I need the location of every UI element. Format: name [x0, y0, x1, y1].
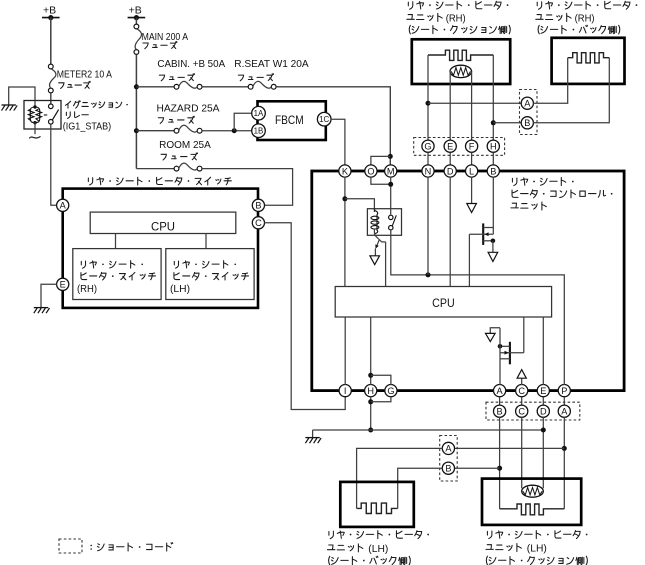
fuse ROOM 25A	[136, 163, 202, 171]
ground (control unit)	[305, 430, 321, 443]
wire FBCM 1C to terminal K	[331, 119, 345, 165]
wire H-G bracket (outside)	[368, 396, 391, 432]
wire fuse to ignition relay	[50, 93, 52, 104]
ground arrow (Q1 source)	[488, 252, 498, 261]
unit box RH seat-cushion heater	[412, 39, 510, 84]
terminal C (lower connector)	[516, 405, 528, 417]
svg-text:F: F	[469, 142, 475, 152]
svg-text:(RH): (RH)	[77, 284, 97, 295]
svg-text:B: B	[497, 407, 503, 417]
terminal I (control unit bottom)	[339, 385, 351, 397]
svg-text:E: E	[60, 280, 66, 290]
terminal C (switch)	[252, 217, 264, 229]
wire heater-left to connector A	[428, 102, 522, 104]
control unit box リヤ・シート・ヒータ・コントロール・ユニット	[312, 171, 624, 391]
svg-text:H: H	[367, 386, 374, 396]
svg-text:M: M	[387, 166, 395, 176]
svg-text:G: G	[387, 386, 394, 396]
svg-text:CABIN. +B 50A: CABIN. +B 50A	[157, 59, 225, 70]
wire relay to switch terminal A	[51, 124, 57, 205]
ground arrow (relay coil)	[370, 256, 380, 265]
relay box U-IGN イグニッション・リレー	[24, 101, 61, 130]
node +B (battery feed, left)	[42, 5, 60, 65]
pin 1C	[317, 112, 331, 126]
wire D to CPU	[449, 177, 451, 287]
svg-text:K: K	[342, 166, 349, 176]
svg-text:(LH): (LH)	[527, 544, 547, 555]
svg-text:ROOM 25A: ROOM 25A	[159, 140, 211, 151]
terminal L (control unit top)	[466, 165, 478, 177]
svg-text:(RH): (RH)	[446, 13, 466, 24]
label CABIN. +B 50A フューズ	[157, 59, 225, 81]
wire heater-right to connector B	[493, 122, 521, 124]
svg-text:A: A	[497, 386, 504, 396]
wire relay contact to P (via N junction)	[391, 230, 565, 385]
wire M to relay contact	[388, 177, 393, 216]
svg-text:A: A	[524, 99, 531, 109]
label リヤ・シート・ヒータ・ユニット (LH) (シート・クッション側)	[486, 531, 588, 565]
terminal B (RH back)	[521, 117, 533, 129]
label リヤ・シート・ヒータ・ユニット (RH) (シート・クッション側)	[407, 1, 510, 34]
wire lead E (thermostat left)	[449, 71, 451, 140]
wire switch C to control unit I	[264, 223, 345, 410]
ground wire (H)	[313, 429, 544, 431]
connector B C D A (short code)	[486, 402, 580, 420]
terminal B (switch)	[252, 199, 264, 211]
wire connector B row (LH)	[454, 467, 499, 469]
wire connector A row (LH)	[454, 447, 564, 449]
svg-text:E: E	[447, 142, 453, 152]
svg-text:G: G	[424, 142, 431, 152]
terminal E (switch)	[57, 278, 69, 290]
terminal A (LH back)	[442, 442, 454, 454]
svg-text:C: C	[255, 218, 262, 228]
terminal K (control unit top)	[339, 165, 351, 177]
label リヤ・シート・ヒータ・コントロール・ユニット	[511, 178, 613, 210]
connector G E F H (short code)	[414, 138, 505, 156]
label リヤ・シート・ヒータ・スイッチ	[88, 177, 231, 185]
wire stub C	[521, 397, 523, 406]
wire connector A to RH back heater	[533, 58, 568, 103]
unit box RH seat-back heater	[552, 38, 625, 84]
fuse METER2 10 A	[48, 64, 56, 93]
terminal N (control unit top)	[422, 165, 434, 177]
connector A B (LH back, short code)	[440, 436, 458, 482]
wire connector B to RH back heater	[533, 58, 609, 123]
svg-text:B: B	[255, 201, 261, 211]
wire feed row to CABIN fuse	[136, 86, 174, 88]
heater element (RH cushion)	[428, 50, 493, 60]
wire between fuses	[202, 86, 248, 88]
terminal A (RH back)	[521, 97, 533, 109]
wire B to LH cushion heater	[497, 417, 502, 509]
svg-text:(LH): (LH)	[170, 284, 190, 295]
svg-text:C: C	[518, 407, 525, 417]
pin 1B	[252, 124, 266, 138]
arrow (C output, upward)	[517, 370, 526, 385]
svg-text:D: D	[540, 407, 547, 417]
wire L to arrow	[471, 177, 473, 204]
svg-text:E: E	[540, 386, 546, 396]
arrow (L output)	[467, 204, 477, 213]
relay coil (control unit)	[371, 209, 379, 236]
svg-text:+B: +B	[129, 5, 142, 17]
wire N down to junction	[427, 177, 429, 275]
terminal B (LH back)	[442, 462, 454, 474]
relay coil (ignition relay)	[28, 101, 47, 125]
svg-text:METER2 10 A: METER2 10 A	[57, 70, 112, 81]
terminal M (control unit top)	[385, 165, 397, 177]
fuse R.SEAT W1 20A	[248, 81, 276, 89]
label リヤ・シート・ヒータ・ユニット (LH) (シート・バック側)	[327, 531, 429, 565]
label METER2 10 A フューズ	[57, 70, 112, 89]
svg-text:(RH): (RH)	[575, 13, 595, 24]
legend short code ショート・コード	[59, 539, 173, 553]
terminal O (control unit top)	[365, 165, 377, 177]
svg-text:+B: +B	[43, 5, 56, 17]
wire main feed vertical	[134, 55, 139, 169]
fuse MAIN 200 A	[134, 24, 142, 54]
wire Q1 gate to CPU	[468, 234, 470, 286]
terminal D (control unit top)	[444, 165, 456, 177]
label イグニッション・リレー (IG1_STAB)	[63, 101, 128, 133]
terminal G (control unit bottom)	[385, 385, 397, 397]
wire lead H (heater right)	[491, 55, 496, 140]
node +B (battery feed, right)	[128, 5, 146, 25]
svg-text:P: P	[561, 386, 567, 396]
label リヤ・シート・ヒータ・ユニット (RH) (シート・バック側)	[536, 1, 638, 34]
pin 1A	[252, 106, 266, 120]
label ROOM 25A フューズ	[159, 140, 211, 160]
wire B to MOSFET drain	[492, 177, 494, 235]
svg-text:A: A	[561, 407, 568, 417]
wire stub D	[542, 397, 544, 406]
svg-text:MAIN 200 A: MAIN 200 A	[142, 32, 189, 43]
unit box LH seat-cushion heater	[482, 479, 581, 525]
relay box (control unit)	[367, 209, 401, 236]
wire hazard fuse to FBCM 1B	[202, 128, 252, 133]
wire CPU to RH switch block	[115, 234, 117, 249]
svg-text:I: I	[344, 386, 347, 396]
wire D to LH thermostat with ground tap	[541, 417, 546, 489]
svg-text:L: L	[469, 166, 474, 176]
coil return hook	[29, 123, 40, 139]
wire branch to FBCM 1A	[234, 113, 252, 131]
wire CPU to I	[344, 317, 346, 385]
wire Q2 gate to CPU	[523, 317, 525, 353]
wire A to LH cushion heater	[562, 417, 567, 509]
svg-text:1B: 1B	[254, 127, 264, 136]
transistor Q1 (B output FET)	[469, 223, 495, 252]
wire B to LH back heater	[398, 468, 443, 508]
svg-text:D: D	[447, 166, 454, 176]
arrow (Q2 drain)	[486, 333, 496, 341]
block リヤ・シート・ヒータ・スイッチ (LH)	[166, 249, 254, 300]
wire A to LH back heater	[357, 448, 443, 508]
svg-text:(IG1_STAB): (IG1_STAB)	[63, 121, 111, 132]
wire relay coil to ground arrow and CPU	[374, 229, 385, 287]
svg-text:O: O	[367, 166, 374, 176]
svg-text:CPU: CPU	[432, 296, 455, 310]
svg-text:(LH): (LH)	[368, 544, 388, 555]
terminal E (control unit bottom)	[537, 385, 549, 397]
switch unit box	[63, 189, 258, 308]
svg-text:FBCM: FBCM	[275, 113, 304, 127]
wire R.SEAT fuse to terminal M	[276, 87, 393, 166]
wire C to LH thermostat	[521, 417, 523, 489]
svg-text:HAZARD 25A: HAZARD 25A	[157, 104, 220, 115]
svg-text:B: B	[524, 118, 530, 128]
transistor Q2 (C output FET)	[490, 328, 524, 385]
terminal A (lower connector)	[558, 405, 570, 417]
connector A B (RH back, short code)	[520, 90, 538, 135]
terminal P (control unit bottom)	[558, 385, 570, 397]
svg-text:R.SEAT W1 20A: R.SEAT W1 20A	[234, 59, 309, 70]
svg-text:H: H	[490, 142, 497, 152]
unit box LH seat-back heater	[340, 482, 414, 527]
svg-text:B: B	[445, 464, 451, 474]
terminal C (control unit bottom)	[516, 385, 528, 397]
svg-text:CPU: CPU	[151, 219, 175, 233]
terminal B (control unit top)	[487, 165, 499, 177]
CPU (switch unit)	[90, 212, 236, 233]
wire CPU to H with G bracket	[368, 317, 373, 385]
terminal H (control unit bottom)	[365, 385, 377, 397]
svg-text:1C: 1C	[319, 115, 329, 124]
wire K to CPU with branch to relay coil	[342, 177, 347, 287]
ground (switch E)	[34, 284, 57, 313]
heater element (RH back)	[568, 53, 610, 63]
relay contact (control unit)	[389, 215, 397, 230]
fuse CABIN. +B 50A	[174, 81, 202, 89]
svg-text:B: B	[490, 166, 496, 176]
svg-text:A: A	[60, 201, 67, 211]
thermostat (RH cushion)	[450, 65, 472, 77]
wire room fuse to switch terminal B	[202, 169, 293, 206]
block リヤ・シート・ヒータ・スイッチ (RH)	[73, 249, 161, 300]
wire feed row to HAZARD fuse	[136, 130, 174, 132]
wire lead F (thermostat right)	[471, 71, 473, 140]
svg-text:1A: 1A	[254, 109, 264, 118]
thermostat (LH cushion)	[522, 485, 544, 497]
wire bracket to G (inside)	[371, 375, 391, 385]
module FBCM	[258, 101, 326, 140]
CPU (control unit)	[335, 287, 551, 318]
wire stub B	[499, 397, 501, 406]
terminal G	[422, 140, 434, 152]
terminal E	[444, 140, 456, 152]
wire G to N	[427, 152, 429, 165]
wire E to D	[449, 152, 451, 165]
wire branch to relay coil	[345, 199, 375, 212]
heater element (LH back)	[357, 503, 398, 513]
terminal A (control unit bottom)	[494, 385, 506, 397]
wire O-M junction below terminals	[371, 177, 391, 185]
wire CPU to LH switch block	[205, 234, 207, 249]
svg-text:A: A	[445, 444, 452, 454]
wire F to L	[471, 152, 473, 165]
label R.SEAT W1 20A フューズ	[234, 59, 309, 81]
terminal F	[466, 140, 478, 152]
relay contact (ignition relay)	[49, 104, 59, 124]
wire CPU to E	[542, 317, 544, 385]
fuse HAZARD 25A	[174, 125, 202, 133]
terminal A (switch)	[57, 199, 69, 211]
terminal D (lower connector)	[537, 405, 549, 417]
terminal B (lower connector)	[494, 405, 506, 417]
wire stub A	[563, 397, 565, 406]
terminal H	[487, 140, 499, 152]
svg-text:N: N	[425, 166, 432, 176]
label MAIN 200 A フューズ	[142, 32, 189, 49]
label HAZARD 25A フューズ	[157, 104, 220, 124]
svg-text:C: C	[518, 386, 525, 396]
wire H to B	[492, 152, 494, 165]
wire branch to terminal O	[371, 156, 390, 165]
heater element (LH cushion)	[500, 504, 565, 515]
ground (ignition relay coil)	[1, 87, 35, 111]
wire lead G (heater left)	[426, 55, 431, 140]
